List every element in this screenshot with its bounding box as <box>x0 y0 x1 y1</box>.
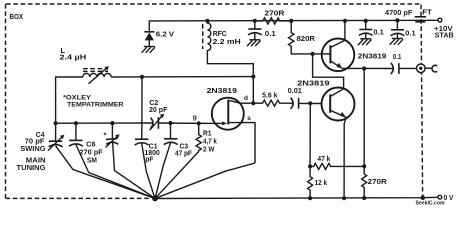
ground bus wire <box>155 197 438 198</box>
capacitor 0.1 bypass C <box>396 20 398 29</box>
svg-text:0.1: 0.1 <box>265 29 276 38</box>
svg-text:C3: C3 <box>180 143 189 150</box>
svg-text:SM: SM <box>87 158 97 165</box>
svg-text:0.01: 0.01 <box>288 88 302 95</box>
node Q3 base / Q2 drain <box>311 52 315 56</box>
transistor Q3 2N3819 <box>322 39 355 72</box>
svg-text:STAB: STAB <box>435 30 454 39</box>
node rail-RFC <box>205 19 209 23</box>
wire tank top <box>111 76 253 78</box>
node drain <box>251 101 255 105</box>
box dashed border <box>6 3 420 5</box>
svg-text:2.4 µH: 2.4 µH <box>60 53 87 62</box>
wire gate bias <box>309 103 311 166</box>
wire C3 to star <box>155 143 170 198</box>
svg-text:d: d <box>244 95 248 102</box>
capacitor C1 1800pF <box>141 123 143 139</box>
wire Q3base-Q2drain L <box>313 54 344 89</box>
wire Q3 base lead <box>313 53 322 55</box>
resistor 5.6k <box>253 100 292 106</box>
node rail-820R <box>289 19 293 23</box>
wire trimmer to star <box>113 143 155 199</box>
svg-text:47 k: 47 k <box>317 156 330 163</box>
svg-text:2 W: 2 W <box>203 146 215 153</box>
svg-text:BOX: BOX <box>10 12 24 21</box>
svg-text:270 pF: 270 pF <box>79 150 103 157</box>
wire Q1 source to star <box>155 163 255 198</box>
wire C4 to star <box>56 146 155 199</box>
svg-text:2N3819: 2N3819 <box>297 79 329 88</box>
node rail-bypass1 <box>253 19 257 23</box>
svg-text:820R: 820R <box>297 34 316 43</box>
svg-text:2N3819: 2N3819 <box>207 86 237 95</box>
capacitor 0.1 output <box>391 63 394 74</box>
wire Q2 source to ground bus <box>344 117 346 198</box>
svg-text:MAIN: MAIN <box>26 157 46 164</box>
node rail-bypass3 <box>395 18 399 22</box>
node rail-bypass2 <box>364 19 368 23</box>
svg-text:TUNING: TUNING <box>17 165 47 172</box>
inductor L 2.4uH <box>56 77 83 123</box>
node 270R top <box>362 164 366 168</box>
svg-text:0 V: 0 V <box>444 193 454 202</box>
svg-text:C6: C6 <box>86 142 95 149</box>
resistor 12k <box>308 166 313 198</box>
ground (zener) <box>142 47 156 53</box>
svg-text:2N3819: 2N3819 <box>358 51 387 60</box>
svg-text:47 pF: 47 pF <box>175 150 193 157</box>
zener diode 6.2V <box>144 31 154 33</box>
capacitor 0.1 bypass B <box>365 21 367 30</box>
node Q2 gate <box>308 101 312 105</box>
capacitor 0.1 bypass A <box>254 21 256 29</box>
svg-text:0.1: 0.1 <box>393 54 402 61</box>
resistor 270R top <box>257 18 291 24</box>
svg-text:2.2 mH: 2.2 mH <box>213 37 241 46</box>
transistor Q2 2N3819 <box>322 88 355 121</box>
resistor 270R bottom <box>362 166 367 198</box>
terminal 0V <box>438 195 442 199</box>
svg-text:4,7 k: 4,7 k <box>203 138 217 145</box>
svg-text:g: g <box>193 114 197 121</box>
svg-text:4700 pF: 4700 pF <box>385 8 413 17</box>
svg-text:70 pF: 70 pF <box>25 139 46 146</box>
svg-text:pF: pF <box>145 157 154 164</box>
capacitor C3 47pF <box>170 123 172 139</box>
wire C2 branch <box>141 77 143 123</box>
capacitor 0.01 <box>291 98 294 109</box>
resistor 820R <box>289 21 313 54</box>
capacitor trimmer starred <box>111 123 113 139</box>
connector coax output <box>417 64 426 73</box>
wire Q3 collector to rail <box>344 21 346 40</box>
transistor Q1 2N3819 oscillator <box>212 98 244 130</box>
capacitor C4 trimmer main tuning <box>55 123 57 141</box>
svg-text:0.1: 0.1 <box>373 28 384 37</box>
supply rail wire <box>149 20 438 32</box>
svg-text:SeekIC.com: SeekIC.com <box>416 201 446 207</box>
svg-text:*: * <box>104 130 107 139</box>
svg-text:R1: R1 <box>203 130 212 137</box>
svg-text:12 k: 12 k <box>315 180 328 187</box>
svg-text:5.6 k: 5.6 k <box>262 92 277 99</box>
svg-text:6.2 V: 6.2 V <box>156 30 174 39</box>
svg-text:270R: 270R <box>265 8 286 17</box>
wire follower bias <box>363 69 365 167</box>
capacitor C2 20pF trimmer <box>151 118 153 129</box>
inductor RFC 2.2mH <box>207 21 210 51</box>
wire RFC feed <box>207 51 253 103</box>
wire output line <box>342 67 392 69</box>
gate bus wire <box>56 122 153 124</box>
capacitor 4700pF FT feedthrough <box>415 16 426 18</box>
star ground point <box>152 196 158 202</box>
terminal +10V <box>438 18 442 22</box>
svg-text:FT: FT <box>422 7 432 16</box>
capacitor C6 270pF SM <box>75 123 77 140</box>
svg-text:270R: 270R <box>368 177 388 186</box>
node 47k/12k <box>308 164 312 168</box>
svg-text:s: s <box>247 115 251 122</box>
svg-text:20 pF: 20 pF <box>149 107 168 114</box>
svg-text:TEMPATRIMMER: TEMPATRIMMER <box>67 101 124 108</box>
wire C6 to star <box>76 145 155 199</box>
resistor R1 4.7k 2W <box>196 123 201 151</box>
wire C1 to star <box>142 143 155 198</box>
svg-text:0.1: 0.1 <box>405 29 416 38</box>
wire R1 to star <box>155 152 199 199</box>
resistor 47k <box>310 163 364 169</box>
svg-text:SWING: SWING <box>20 146 46 153</box>
